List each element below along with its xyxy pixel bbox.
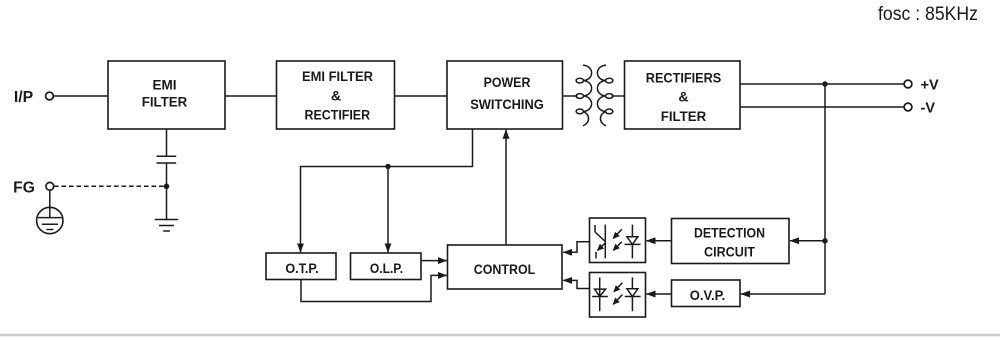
wire DETECTION CIRCUIT to optocoupler U1 [647, 240, 672, 242]
optocoupler U2 [590, 273, 646, 318]
block O.L.P. [351, 253, 422, 280]
svg-text:POWER: POWER [484, 75, 531, 91]
wire feedback sense vertical [824, 84, 826, 294]
ground [155, 220, 178, 232]
U1 LED [631, 225, 633, 237]
U2 photodiode [599, 277, 601, 311]
wire optocoupler U2 to CONTROL [563, 280, 589, 288]
wire capacitor to ground [166, 163, 168, 220]
svg-text:&: & [678, 90, 688, 106]
wire POWER SWITCHING to transformer primary [563, 95, 578, 97]
svg-text:EMI FILTER: EMI FILTER [302, 69, 373, 85]
earth ground symbol [37, 207, 63, 233]
optocoupler U1 [590, 218, 646, 263]
svg-text:SWITCHING: SWITCHING [470, 97, 544, 113]
transformer T1 secondary winding [597, 65, 613, 126]
node FG junction [164, 184, 170, 190]
U2 light arrows [614, 283, 622, 292]
block O.T.P. [266, 253, 336, 280]
svg-text:O.V.P.: O.V.P. [690, 288, 726, 304]
block O.V.P. [672, 280, 741, 307]
svg-text:FILTER: FILTER [661, 109, 707, 125]
svg-text:O.L.P.: O.L.P. [370, 261, 403, 277]
capacitor C1 [157, 156, 177, 163]
wire to O.V.P. [741, 293, 825, 295]
block EMI FILTER & RECTIFIER [277, 61, 395, 129]
svg-text:CONTROL: CONTROL [474, 262, 536, 278]
svg-text:FILTER: FILTER [142, 95, 188, 111]
svg-text:DETECTION: DETECTION [694, 226, 765, 242]
block DETECTION CIRCUIT [672, 219, 790, 264]
FG terminal [46, 182, 54, 190]
node on +V line [822, 81, 827, 86]
svg-text:FG: FG [13, 179, 35, 196]
wire to DETECTION CIRCUIT [790, 240, 825, 242]
wire EMI FILTER & RECTIFIER to POWER SWITCHING [395, 95, 448, 97]
node detection branch [822, 238, 827, 243]
wire dashed FG to junction [54, 185, 164, 187]
wire O.T.P. loop to CONTROL [301, 275, 447, 301]
wire +V output [740, 83, 904, 85]
I/P terminal [46, 92, 54, 100]
svg-text:&: & [331, 88, 341, 104]
wire O.V.P. to optocoupler U2 [647, 293, 672, 295]
wire EMI FILTER to Y-capacitor [166, 129, 168, 156]
node O.L.P. branch [385, 164, 390, 169]
block EMI FILTER [108, 61, 225, 129]
wire POWER SWITCHING to O.T.P. [301, 129, 473, 252]
block CONTROL [448, 245, 563, 289]
wire optocoupler U1 to CONTROL [563, 242, 589, 253]
wire CONTROL to POWER SWITCHING [505, 130, 507, 245]
wire O.L.P. to CONTROL [421, 260, 447, 262]
wire -V output [740, 106, 904, 108]
U2 LED [631, 277, 633, 288]
svg-text:CIRCUIT: CIRCUIT [704, 244, 755, 260]
block POWER SWITCHING [447, 61, 563, 129]
svg-text:RECTIFIER: RECTIFIER [305, 107, 371, 123]
separator line at bottom [0, 334, 1000, 336]
svg-text:fosc : 85KHz: fosc : 85KHz [878, 4, 978, 25]
svg-text:-V: -V [921, 100, 936, 116]
wire FG to earth [49, 190, 51, 217]
wire branch to O.L.P. [387, 167, 389, 253]
terminal -V [904, 103, 912, 111]
svg-text:I/P: I/P [14, 89, 33, 106]
wire transformer secondary to RECTIFIERS & FILTER [612, 95, 625, 97]
U1 phototransistor [604, 225, 606, 259]
svg-text:EMI: EMI [153, 78, 177, 94]
terminal +V [904, 80, 912, 88]
svg-text:RECTIFIERS: RECTIFIERS [646, 70, 721, 86]
U1 light arrows [613, 229, 622, 238]
wire EMI FILTER to EMI FILTER &amp; RECTIFIER [225, 95, 277, 97]
transformer T1 primary winding [576, 65, 592, 126]
svg-text:O.T.P.: O.T.P. [285, 261, 318, 277]
svg-text:+V: +V [921, 77, 939, 93]
wire I/P to EMI FILTER [54, 95, 108, 97]
block RECTIFIERS & FILTER [625, 61, 741, 129]
